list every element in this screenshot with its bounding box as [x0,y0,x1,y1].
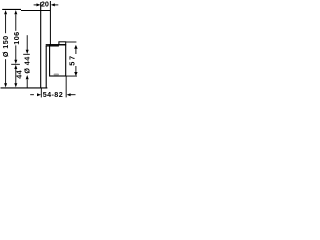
dimension 20 [34,0,59,8]
dimension D150 [1,10,10,87]
plate front face edge [45,46,47,88]
106 bottom reference line [11,63,20,65]
handle top edge [46,44,66,46]
57 top reference line [66,41,77,43]
dimension 106 [12,10,21,64]
dimension D44 [23,35,32,88]
dimension 44 [14,65,23,88]
svg-text:Ø 44: Ø 44 [23,56,32,73]
dimension 57 [68,45,78,76]
svg-text:106: 106 [12,31,21,44]
svg-text:Ø 150: Ø 150 [1,36,10,58]
57 bottom reference line [66,75,77,77]
slot marker on handle [54,74,59,76]
button on handle top [59,42,66,45]
top reference line [2,8,21,10]
dimension 54-82 [30,76,75,99]
plate side view left edge [40,2,42,88]
knob side right edge and 20-dim right extension [49,1,51,45]
svg-text:54-82: 54-82 [43,90,63,99]
bottom reference line [1,87,48,89]
handle front view body [50,45,66,76]
svg-text:57: 57 [68,54,77,65]
svg-text:20: 20 [41,0,49,8]
